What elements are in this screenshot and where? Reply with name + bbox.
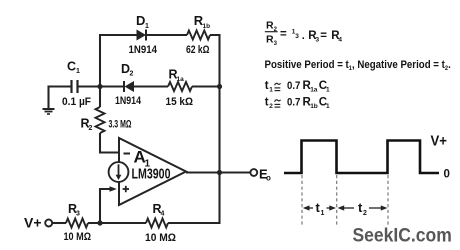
svg-text:1a: 1a (310, 87, 318, 94)
svg-text:1N914: 1N914 (129, 44, 158, 56)
text: Positive Period = t1, Negative Period = t2. (265, 59, 451, 72)
resistor R3 (66, 219, 88, 228)
junction node A (C1/D2/R2) (97, 84, 102, 89)
junction right rail / output (217, 170, 222, 175)
wire: D1 cathode to R1b left (146, 34, 187, 36)
wire: R2 bottom to inverting input of U1 (100, 133, 119, 153)
terminal E0 (250, 169, 257, 176)
dashed marker line 1 (301, 175, 303, 225)
svg-text:10 MΩ: 10 MΩ (145, 232, 176, 244)
formula t2 = 0.7 R1b C1 (265, 97, 330, 111)
diode D1 (137, 30, 147, 41)
wire: R3 right to R4 left (88, 222, 146, 224)
arrowhead into non-inverting input (110, 186, 117, 192)
svg-text:10 MΩ: 10 MΩ (64, 231, 92, 243)
svg-text:3: 3 (316, 37, 320, 44)
svg-text:0.1 µF: 0.1 µF (62, 96, 91, 108)
capacitor C1 (72, 80, 78, 93)
svg-text:1: 1 (145, 23, 149, 30)
svg-text:t: t (265, 97, 269, 109)
svg-text:4: 4 (161, 211, 165, 218)
wire: D2 anode to R1a left (134, 85, 168, 87)
svg-text:2: 2 (269, 103, 273, 110)
dashed marker line 2 (336, 175, 338, 225)
svg-text:R2: R2 (266, 20, 278, 33)
junction R3/R4 node (97, 220, 102, 225)
svg-text:2: 2 (130, 71, 134, 78)
svg-text:1a: 1a (177, 76, 185, 83)
resistor R4 (146, 219, 168, 228)
svg-text:t: t (265, 80, 269, 92)
dashed marker line 3 (387, 175, 389, 225)
svg-text:SeekIC.com: SeekIC.com (353, 225, 452, 246)
svg-text:V+: V+ (24, 215, 42, 231)
svg-text:V+: V+ (431, 133, 448, 149)
resistor R1b (187, 31, 210, 40)
svg-text:C1: C1 (67, 60, 80, 76)
wire: C1 right plate to node A to D2 cathode (79, 85, 125, 87)
svg-text:3.3 MΩ: 3.3 MΩ (109, 119, 132, 131)
svg-text:LM3900: LM3900 (132, 167, 171, 183)
svg-text:0.7: 0.7 (287, 80, 300, 92)
svg-text:1: 1 (326, 87, 330, 94)
svg-text:1: 1 (321, 210, 325, 217)
svg-text:0.7: 0.7 (287, 97, 300, 109)
svg-text:2: 2 (89, 125, 93, 132)
terminal V+ (45, 220, 52, 227)
svg-text:R3: R3 (266, 34, 278, 47)
wire: V+ terminal to R3 left (52, 222, 66, 224)
t2 dimension arrows (338, 205, 388, 210)
svg-text:4: 4 (338, 37, 342, 44)
formula R2/R3 = 1/3, R3 = R4 (265, 20, 343, 47)
formula t1 = 0.7 R1a C1 (265, 80, 330, 94)
svg-text:1N914: 1N914 (115, 95, 142, 107)
wire: op-amp output to terminal E0 (186, 171, 250, 173)
svg-text:62 kΩ: 62 kΩ (186, 44, 210, 56)
svg-text:Positive Period = t1, Negative: Positive Period = t1, Negative Period = … (265, 59, 451, 72)
t1 dimension arrows (303, 205, 336, 210)
diode D2 (124, 81, 134, 92)
minus input sign (124, 153, 131, 155)
svg-text:=: = (320, 30, 327, 42)
svg-text:=: = (280, 29, 287, 41)
svg-text:15 kΩ: 15 kΩ (166, 96, 194, 108)
resistor R2 (96, 107, 105, 133)
wire: R1b right, right vertical rail, bottom to R4 right (168, 35, 220, 223)
svg-text:2: 2 (363, 210, 367, 217)
svg-text:D: D (136, 13, 145, 28)
junction right rail / R1a (217, 84, 222, 89)
op-amp U1 triangle (119, 138, 186, 205)
wire: ground lead up and to C1 left plate (49, 87, 71, 109)
ground (43, 109, 55, 114)
svg-text:o: o (266, 174, 271, 183)
svg-text:3: 3 (295, 33, 299, 40)
svg-text:1: 1 (326, 103, 330, 110)
wire: top-left corner, left vertical down through node A to R2 top (100, 35, 137, 107)
waveform square wave (284, 141, 439, 174)
svg-text:0: 0 (444, 169, 450, 181)
wire: R1a right to right rail (192, 85, 220, 87)
svg-text:1b: 1b (310, 103, 318, 110)
current source symbol inside U1 (109, 162, 129, 182)
plus input sign (123, 186, 129, 192)
svg-text:3: 3 (76, 211, 80, 218)
svg-text:1: 1 (269, 87, 273, 94)
svg-text:.: . (302, 30, 305, 42)
wire: R3/R4 junction up to non-inverting input (100, 189, 111, 223)
svg-text:1b: 1b (203, 23, 211, 30)
resistor R1a (168, 82, 192, 91)
